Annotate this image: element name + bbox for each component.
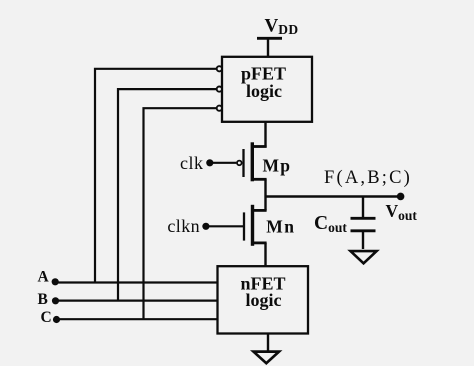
output wire [266, 195, 402, 198]
wire Mp source to Mn drain (output node) [264, 179, 266, 210]
wire clkn to Mn gate [206, 225, 244, 227]
input bubble 3 on pFET box [217, 106, 222, 111]
svg-text:Mp: Mp [263, 156, 292, 176]
ground (capacitor) [351, 251, 377, 263]
capacitor Cout [351, 197, 376, 250]
power VDD rail bar [257, 37, 282, 40]
wire A [55, 281, 218, 283]
wire B to pFET bubble 2 [118, 89, 216, 301]
svg-text:A: A [38, 268, 50, 285]
clkn lead dot [202, 223, 209, 230]
wire Mn source to nFET box [264, 243, 266, 267]
input bubble 2 on pFET box [217, 87, 222, 92]
clk lead dot [206, 159, 213, 166]
output node dot [397, 193, 405, 201]
input B dot [52, 297, 59, 304]
wire C [57, 318, 219, 320]
wire clk to Mp gate [210, 162, 237, 164]
pFET logic box [222, 57, 312, 122]
input A dot [52, 278, 59, 285]
svg-text:B: B [38, 291, 48, 308]
wire VDD to pFET box [267, 39, 269, 58]
input C dot [53, 316, 60, 323]
ground (main) [254, 352, 280, 364]
wire nFET box to ground [267, 334, 269, 351]
transistor Mn [244, 205, 267, 246]
svg-text:logic: logic [246, 81, 282, 101]
svg-text:F(A,B;C): F(A,B;C) [324, 168, 412, 188]
transistor Mp [237, 142, 267, 181]
input bubble 1 on pFET box [217, 66, 222, 71]
wire pFET box to Mp drain [264, 122, 266, 148]
wire C to pFET bubble 3 [144, 108, 217, 319]
svg-text:Mn: Mn [266, 217, 295, 237]
wire A to pFET bubble 1 [95, 69, 216, 283]
wire B [56, 300, 219, 302]
svg-text:C: C [41, 309, 52, 326]
svg-text:logic: logic [246, 290, 282, 310]
nFET logic box [218, 266, 309, 333]
svg-text:clk: clk [180, 153, 204, 173]
svg-text:clkn: clkn [167, 216, 200, 236]
